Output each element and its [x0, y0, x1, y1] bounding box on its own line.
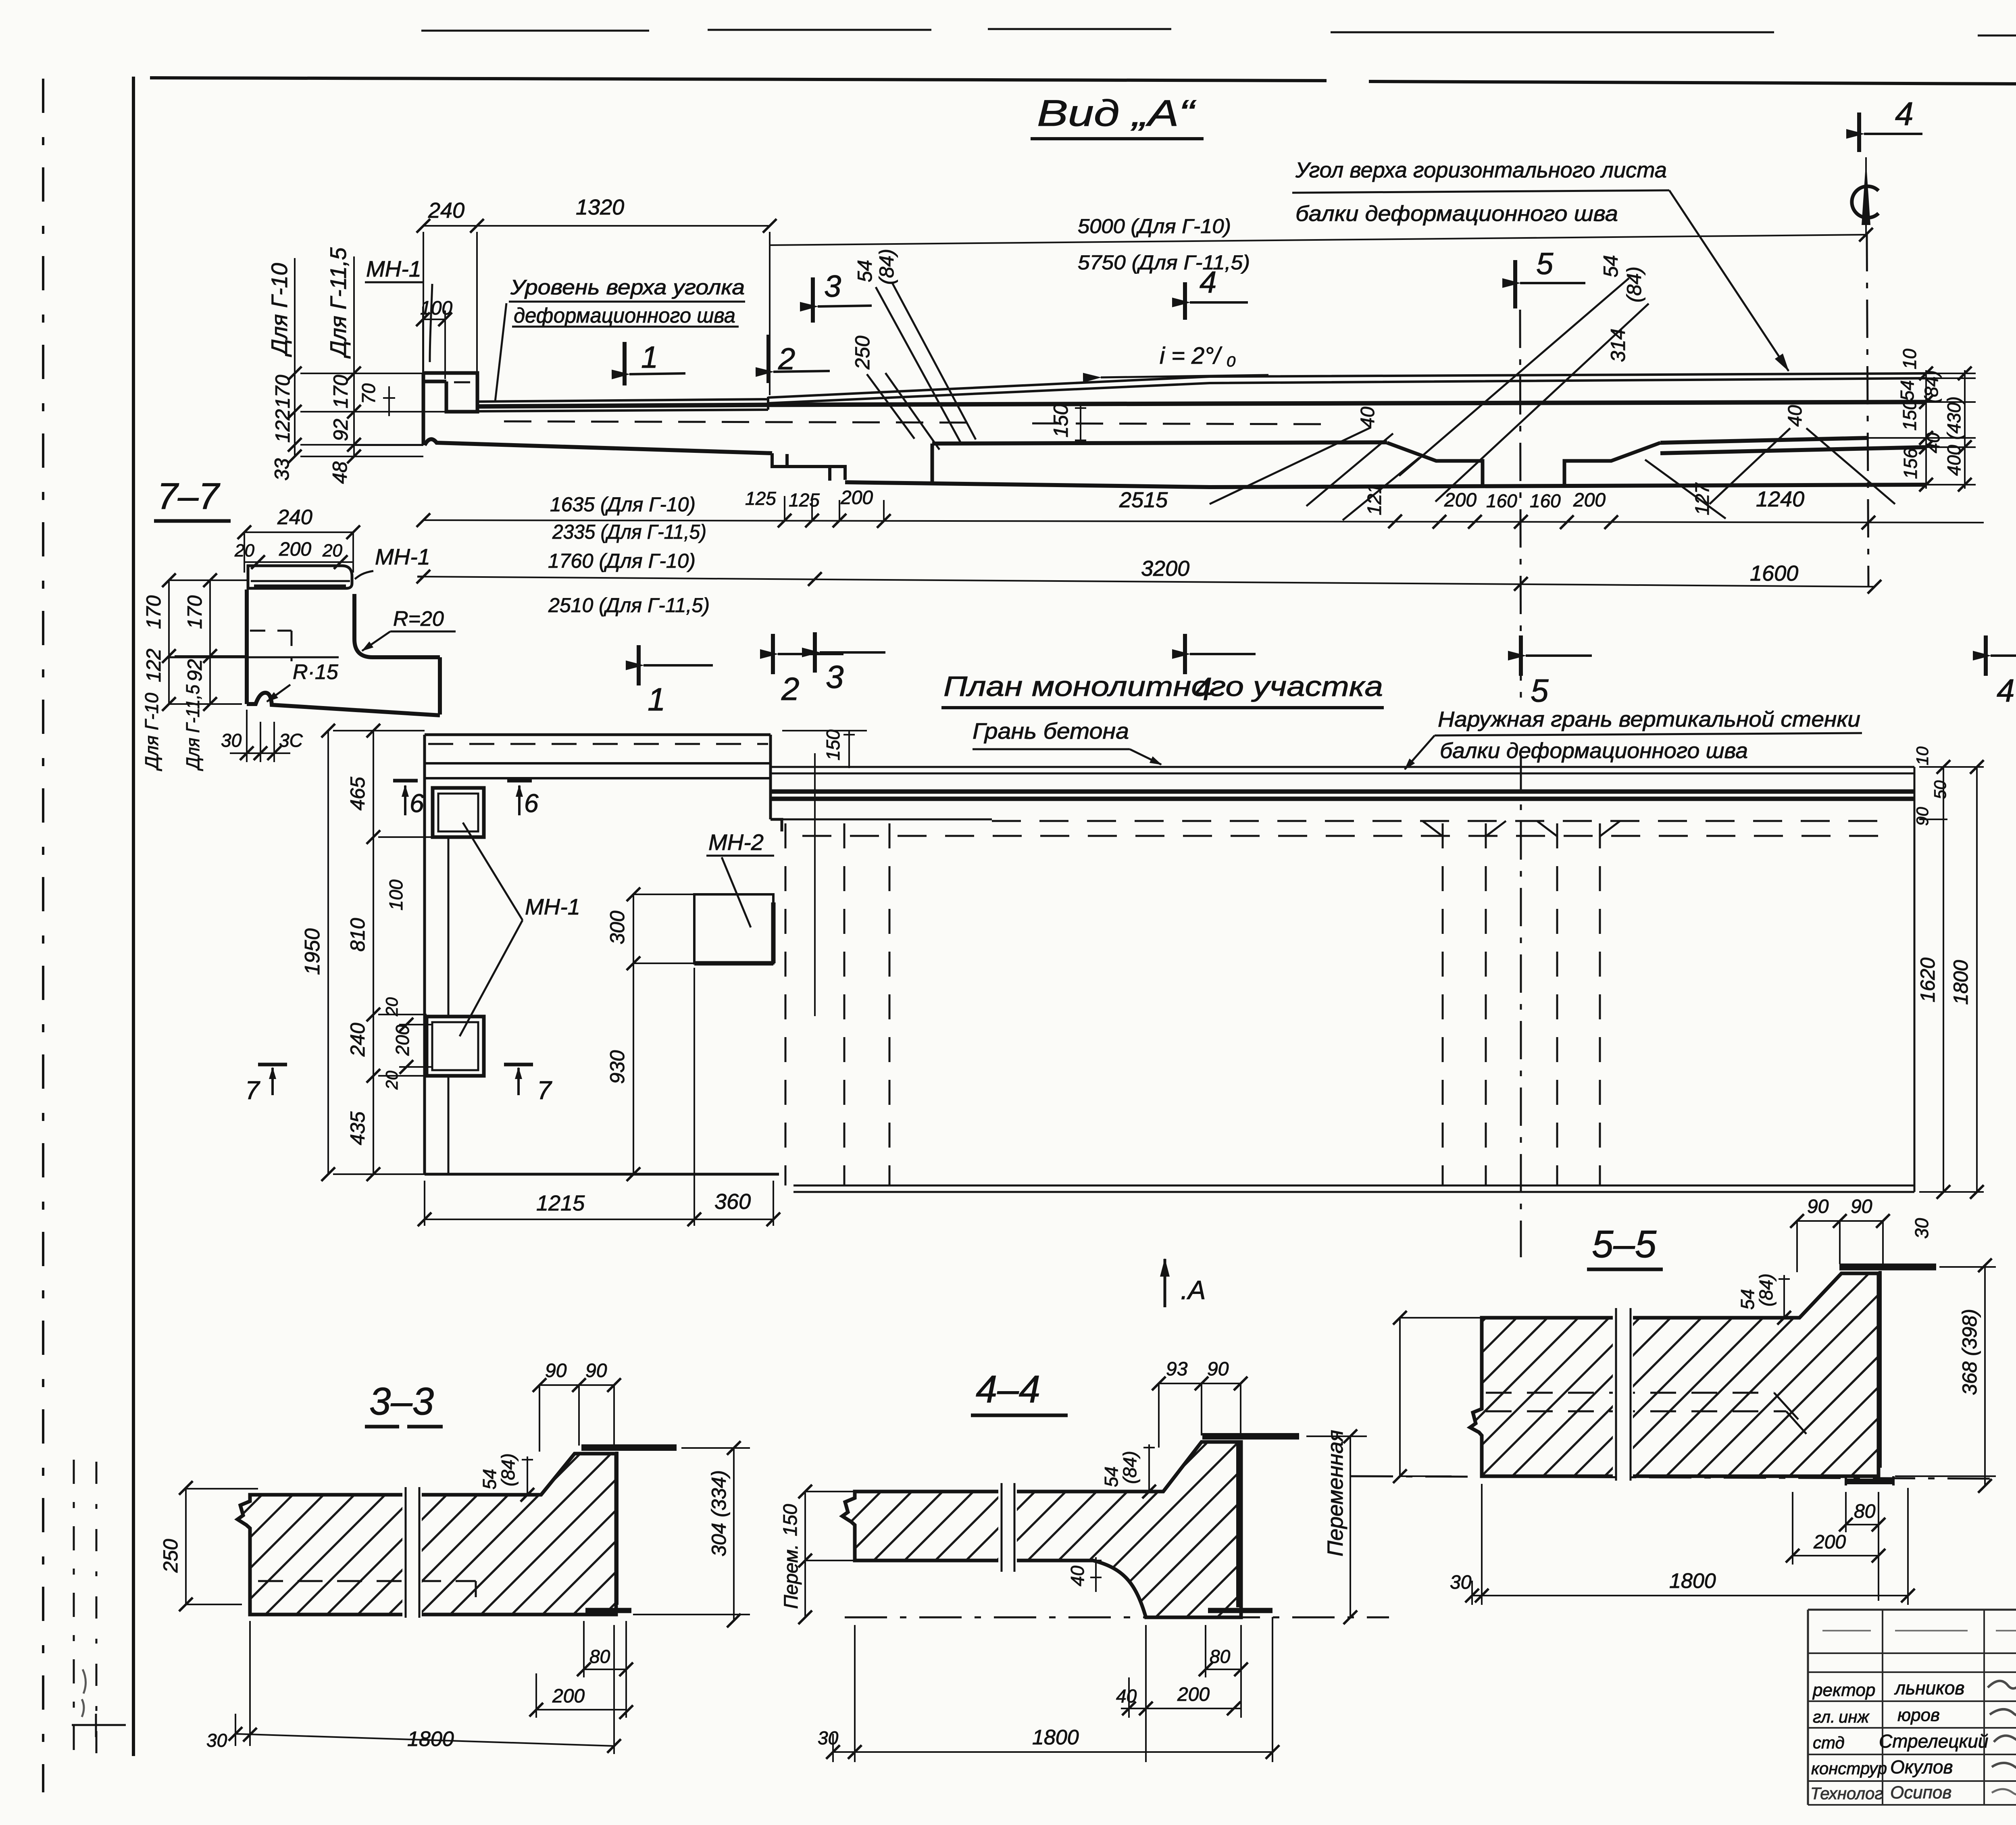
svg-text:Перем.: Перем. [781, 1544, 802, 1609]
section 3 line in plan [814, 753, 816, 1016]
deck top heavy line [477, 402, 1925, 406]
beam B lower step line [1660, 447, 1925, 453]
left margin dashed rule [42, 79, 44, 1792]
MN-2 dims [633, 894, 694, 1174]
svg-text:50: 50 [1931, 780, 1949, 799]
svg-text:4–4: 4–4 [976, 1368, 1040, 1411]
deck top line B [768, 378, 1925, 403]
section 5-5 [1351, 1196, 1996, 1605]
svg-text:170: 170 [142, 595, 165, 629]
MN-1 square upper [433, 788, 484, 837]
svg-text:90: 90 [1851, 1196, 1872, 1217]
baseline dash-dot 4-4 [845, 1617, 1389, 1619]
section 5 axis dash-dot [1520, 310, 1521, 708]
svg-text:54: 54 [854, 260, 876, 282]
dashed lines inside 5-5 [1486, 1392, 1774, 1394]
svg-text:льников: льников [1894, 1677, 1964, 1698]
svg-text:Угол верха горизонтального: Угол верха горизонтального листа [1295, 158, 1667, 182]
svg-text:5–5: 5–5 [1592, 1223, 1657, 1266]
svg-text:Для Г-11,5: Для Г-11,5 [182, 685, 203, 771]
inner vertical between squares [448, 837, 450, 1174]
lowest soffit line [845, 482, 1925, 487]
joint dashed verticals pair 1 [1443, 823, 1486, 1185]
svg-text:100: 100 [385, 879, 406, 910]
view direction arrow A [1164, 1259, 1166, 1307]
dim 20 200 20 [244, 561, 353, 563]
view A elevation [267, 93, 2016, 717]
MN-2 square [694, 894, 773, 963]
deck top line A [768, 373, 1925, 398]
svg-text:90: 90 [1207, 1358, 1229, 1380]
bottom dims 3-3 [235, 1621, 626, 1754]
beam A soffit [425, 439, 772, 453]
svg-text:465: 465 [346, 777, 369, 810]
svg-text:10: 10 [1913, 746, 1932, 765]
svg-text:40: 40 [1922, 432, 1943, 453]
svg-text:ректор: ректор [1812, 1680, 1875, 1700]
svg-text:150: 150 [823, 729, 843, 760]
section mark 3 bottom [813, 632, 817, 673]
svg-text:7: 7 [245, 1076, 260, 1105]
dim row 240/1320 [423, 226, 770, 395]
deck bottom double lines [793, 1185, 1914, 1192]
svg-text:.А: .А [1181, 1275, 1206, 1305]
break band 5-5 [1613, 1306, 1633, 1482]
svg-text:240: 240 [428, 198, 464, 223]
svg-text:(84): (84) [875, 249, 898, 285]
svg-text:3: 3 [826, 659, 844, 695]
svg-text:1800: 1800 [1669, 1569, 1716, 1593]
hatched body 4-4 [842, 1442, 1241, 1617]
svg-text:1800: 1800 [1032, 1726, 1079, 1749]
svg-text:93: 93 [1166, 1358, 1188, 1380]
top main border rule [150, 78, 2016, 86]
left dim 250 [186, 1488, 258, 1604]
svg-text:3200: 3200 [1141, 556, 1189, 581]
svg-text:2510 (Для Г-11,5): 2510 (Для Г-11,5) [548, 594, 710, 617]
I-beam top flange 3-3 [581, 1444, 677, 1451]
left dim stack verticals [295, 256, 446, 456]
joint 2 taper left [1387, 443, 1483, 488]
I-beam top flange 5-5 [1839, 1264, 1936, 1271]
svg-text:Уровень верха уголка: Уровень верха уголка [510, 276, 745, 299]
svg-text:2: 2 [781, 671, 800, 707]
svg-text:4: 4 [1997, 673, 2015, 708]
svg-text:3: 3 [824, 269, 841, 304]
section mark 1 top [623, 342, 627, 385]
dashed line under deck [504, 421, 968, 423]
dim 54-84 5-5 [1779, 1275, 1790, 1318]
svg-text:30: 30 [1911, 1218, 1932, 1239]
table outline [1808, 1610, 2016, 1805]
I-beam web 4-4 [1236, 1440, 1239, 1607]
MN-1 square lower [427, 1017, 484, 1076]
svg-text:240: 240 [277, 506, 312, 529]
left dim columns [169, 580, 248, 704]
top dims 90 90 3-3 [539, 1385, 614, 1452]
svg-text:балки деформационного шва: балки деформационного шва [1295, 202, 1618, 226]
svg-text:80: 80 [589, 1646, 610, 1667]
title block [1808, 1610, 2016, 1805]
dim chain row D [423, 577, 1874, 587]
bottom dims 5-5 [1472, 1484, 1908, 1605]
svg-text:План монолитного участка: План монолитного участка [943, 671, 1383, 702]
svg-text:Осипов: Осипов [1890, 1783, 1951, 1802]
svg-text:54: 54 [1599, 255, 1622, 277]
svg-text:360: 360 [714, 1190, 751, 1214]
profile left edge [245, 590, 249, 704]
svg-text:5000 (Для Г-10): 5000 (Для Г-10) [1078, 215, 1231, 237]
section mark 5 bottom [1519, 635, 1523, 676]
svg-text:юров: юров [1897, 1705, 1940, 1725]
svg-text:Окулов: Окулов [1890, 1756, 1953, 1777]
svg-text:435: 435 [346, 1111, 369, 1145]
svg-text:Стрелецкий: Стрелецкий [1879, 1731, 1988, 1752]
svg-text:6: 6 [524, 789, 539, 818]
svg-text:1800: 1800 [407, 1727, 454, 1751]
plan of monolithic section [245, 671, 1984, 1307]
axis symbol [1852, 186, 1879, 218]
section mark 1 bottom [637, 645, 641, 685]
svg-text:5750 (Для Г-11,5): 5750 (Для Г-11,5) [1078, 251, 1250, 274]
svg-text:2335 (Для Г-11,5): 2335 (Для Г-11,5) [552, 521, 706, 543]
left dim col 1950 [328, 731, 433, 1174]
svg-text:90: 90 [585, 1360, 607, 1381]
svg-text:90: 90 [545, 1360, 567, 1381]
svg-text:1760 (Для Г-10): 1760 (Для Г-10) [548, 550, 696, 572]
dim row 5000/5750 [770, 235, 1866, 245]
svg-text:2515: 2515 [1119, 488, 1168, 512]
dim 54-84 4-4 [1143, 1444, 1155, 1492]
deck right edge [1914, 767, 1916, 1192]
break band 4-4 [998, 1481, 1017, 1574]
svg-text:54: 54 [479, 1469, 500, 1490]
section mark 6 b [507, 779, 532, 783]
svg-text:МН-1: МН-1 [366, 256, 421, 281]
I-beam bottom flange 4-4 [1208, 1608, 1272, 1613]
deck band left med lines [477, 397, 768, 411]
svg-text:40: 40 [1116, 1685, 1137, 1706]
svg-text:1320: 1320 [576, 195, 624, 219]
leader diagonals joint1 [867, 282, 976, 450]
svg-text:1620: 1620 [1916, 958, 1939, 1002]
svg-text:150: 150 [1899, 400, 1920, 431]
svg-text:i = 2°/ ₀: i = 2°/ ₀ [1160, 343, 1236, 369]
svg-text:250: 250 [159, 1539, 182, 1573]
svg-text:48: 48 [329, 461, 351, 484]
deck heavy double lines [771, 792, 1914, 799]
svg-text:20: 20 [382, 1071, 401, 1090]
break band 3-3 [402, 1485, 422, 1620]
svg-text:6: 6 [410, 789, 424, 818]
plan bottom dims [425, 968, 773, 1226]
svg-text:368 (398): 368 (398) [1958, 1309, 1981, 1395]
svg-text:Для Г-10: Для Г-10 [267, 263, 292, 357]
svg-text:200: 200 [552, 1685, 585, 1707]
svg-text:40: 40 [1067, 1565, 1088, 1586]
svg-text:4: 4 [1200, 265, 1216, 300]
svg-text:156: 156 [1900, 448, 1921, 479]
dashed line inside 3-3 [258, 1580, 476, 1582]
I-beam bottom flange 5-5 [1847, 1479, 1893, 1484]
left inner frame rule [132, 77, 135, 1756]
svg-text:30: 30 [221, 730, 242, 751]
svg-text:конструр: конструр [1811, 1759, 1887, 1778]
svg-text:170: 170 [329, 375, 352, 408]
left block step [771, 735, 782, 831]
joint dashed verticals pair 2 [1557, 823, 1600, 1185]
section mark 4 far top [1857, 112, 1861, 152]
svg-text:1215: 1215 [536, 1191, 585, 1215]
hatched body 5-5 [1470, 1273, 1879, 1476]
section 3-3 [159, 1360, 750, 1754]
svg-text:30: 30 [206, 1730, 227, 1751]
section 5 axis in plan [1520, 755, 1522, 1257]
beam B mid line right [1660, 438, 1868, 443]
svg-text:4: 4 [1895, 96, 1914, 132]
svg-text:92: 92 [183, 659, 206, 681]
svg-text:Грань бетона: Грань бетона [973, 718, 1129, 744]
dashed step [250, 631, 292, 661]
svg-text:Наружная грань вертикальной: Наружная грань вертикальной стенки [1438, 707, 1860, 731]
top thin broken rule [421, 29, 2016, 39]
svg-text:Технолог: Технолог [1810, 1784, 1883, 1803]
svg-text:125: 125 [789, 490, 820, 510]
svg-text:160: 160 [1486, 490, 1517, 511]
beam B mid line [932, 442, 1387, 444]
bottom dims 30 30 [230, 710, 290, 762]
svg-text:400 (430): 400 (430) [1943, 396, 1964, 476]
svg-text:10: 10 [1899, 348, 1920, 369]
svg-text:200: 200 [279, 539, 311, 560]
svg-text:200: 200 [392, 1025, 413, 1056]
svg-text:20: 20 [322, 541, 342, 560]
svg-text:20: 20 [382, 997, 401, 1017]
svg-text:80: 80 [1854, 1501, 1876, 1522]
top dims 90 90 5-5 [1797, 1221, 1883, 1272]
svg-text:1800: 1800 [1949, 960, 1972, 1005]
MN-1 plate [248, 566, 352, 588]
section mark 7 left [258, 1063, 287, 1067]
section 4 axis dash-dot [1867, 233, 1868, 587]
svg-text:170: 170 [183, 595, 206, 629]
label MN-1 row D [417, 576, 424, 578]
section mark 4 bottom right [1984, 635, 1988, 676]
svg-text:30: 30 [1450, 1572, 1472, 1593]
svg-text:122: 122 [271, 409, 294, 443]
bottom-left margin dashed verticals [73, 1460, 75, 1752]
section mark 7 right [504, 1063, 533, 1067]
svg-text:МН-1: МН-1 [525, 894, 580, 919]
svg-text:R=20: R=20 [393, 607, 444, 631]
svg-text:54: 54 [1897, 380, 1918, 401]
svg-text:170: 170 [271, 375, 294, 408]
svg-text:90: 90 [1807, 1196, 1829, 1217]
svg-text:1635 (Для Г-10): 1635 (Для Г-10) [550, 493, 696, 516]
svg-text:3–3: 3–3 [369, 1380, 434, 1423]
bottom-left margin mark [72, 1714, 126, 1737]
I-beam web 3-3 [615, 1452, 619, 1605]
svg-text:92: 92 [329, 419, 352, 441]
leader diagonals joint2 [1210, 278, 1895, 520]
svg-text:Вид „А“: Вид „А“ [1037, 93, 1196, 134]
svg-text:70: 70 [358, 383, 379, 404]
joint notch box B [830, 467, 845, 480]
right dim 304 [633, 1448, 750, 1621]
svg-text:Для Г-11,5: Для Г-11,5 [325, 247, 351, 359]
left block inner lines [428, 743, 768, 745]
joint 2 taper right [1564, 443, 1660, 488]
soffit with R15 [247, 693, 440, 715]
svg-text:200: 200 [1573, 490, 1606, 511]
svg-text:5: 5 [1531, 673, 1549, 708]
svg-text:3С: 3С [279, 730, 303, 751]
svg-text:20: 20 [234, 541, 254, 560]
dim chain row C [423, 520, 1984, 523]
section mark 2 top [766, 335, 771, 383]
joint 1 dashed verticals in plan [785, 823, 889, 1185]
svg-text:стд: стд [1813, 1733, 1845, 1752]
svg-text:2: 2 [778, 342, 795, 376]
svg-text:(84): (84) [1119, 1451, 1140, 1484]
right dim Peremennaya [1306, 1436, 1367, 1617]
left dim 5-5 [1400, 1318, 1482, 1476]
svg-text:125: 125 [745, 488, 776, 509]
baseline dash-dot 5-5 [1351, 1476, 1996, 1479]
svg-text:Переменная: Переменная [1323, 1430, 1347, 1556]
section mark 4 top mid [1183, 282, 1187, 320]
svg-text:200: 200 [1444, 490, 1477, 511]
section 6-6 [2015, 1034, 2016, 1265]
svg-text:121: 121 [1364, 483, 1385, 515]
svg-text:гл. инж: гл. инж [1813, 1707, 1870, 1726]
section mark 6 a [393, 779, 418, 783]
svg-text:7: 7 [537, 1076, 552, 1105]
svg-text:5: 5 [1536, 247, 1554, 281]
svg-text:40: 40 [1357, 406, 1379, 428]
joint tapers [1422, 821, 1620, 836]
deck top double thin lines [771, 767, 1914, 773]
svg-text:200: 200 [840, 487, 873, 508]
right dim stack of plan [1919, 767, 1984, 1192]
svg-text:240: 240 [346, 1023, 369, 1057]
svg-text:1600: 1600 [1750, 561, 1798, 585]
section mark 4 bottom [1183, 634, 1187, 674]
beam B left edge [931, 444, 934, 481]
joint notch box A [772, 453, 830, 481]
svg-text:(84): (84) [1921, 370, 1942, 403]
left dims 150 Perem 4-4 [805, 1492, 855, 1617]
svg-text:150: 150 [1050, 404, 1072, 437]
svg-text:МН-1: МН-1 [375, 544, 430, 569]
svg-text:балки деформационного шва: балки деформационного шва [1440, 739, 1748, 763]
svg-text:Для Г-10: Для Г-10 [141, 693, 162, 771]
right dim 368 [1895, 1265, 1996, 1486]
svg-text:150: 150 [780, 1504, 801, 1536]
I-beam bottom flange 3-3 [585, 1608, 631, 1613]
svg-text:810: 810 [346, 918, 369, 952]
svg-text:200: 200 [1813, 1531, 1846, 1553]
svg-text:33: 33 [271, 458, 293, 481]
svg-text:127: 127 [1692, 482, 1713, 515]
deck inner solid then dashed [772, 819, 992, 821]
svg-text:930: 930 [606, 1050, 629, 1084]
I-beam top flange 4-4 [1202, 1433, 1299, 1440]
left block outline [425, 735, 779, 1174]
svg-text:(84): (84) [1623, 267, 1645, 302]
svg-text:1950: 1950 [301, 928, 324, 975]
svg-text:МН-2: МН-2 [708, 829, 764, 855]
svg-text:40: 40 [1785, 405, 1806, 427]
bottom dims 4-4 [833, 1617, 1272, 1762]
section 4-4 [780, 1358, 1389, 1762]
svg-text:304 (334): 304 (334) [708, 1470, 730, 1556]
upstand block [423, 373, 477, 445]
svg-text:250: 250 [851, 335, 874, 370]
dim 54-84 3-3 [522, 1456, 533, 1495]
svg-text:(84): (84) [498, 1453, 519, 1486]
I-beam web 5-5 [1879, 1271, 1882, 1468]
svg-text:122: 122 [142, 648, 165, 682]
leader to deck edge [1669, 190, 1789, 371]
svg-text:54: 54 [1737, 1289, 1758, 1310]
svg-text:30: 30 [818, 1727, 839, 1748]
svg-text:R·15: R·15 [293, 660, 339, 684]
hatched body 3-3 [237, 1454, 616, 1615]
top dims 90 90 4-4 [1159, 1383, 1241, 1448]
section mark 3 top [811, 277, 815, 323]
section mark 5 top [1513, 260, 1517, 308]
svg-text:1240: 1240 [1756, 487, 1804, 511]
svg-text:314: 314 [1607, 329, 1629, 362]
svg-text:160: 160 [1530, 490, 1561, 511]
section 7-7 [141, 476, 456, 771]
svg-text:200: 200 [1177, 1684, 1210, 1705]
svg-text:(84): (84) [1756, 1273, 1776, 1306]
svg-text:80: 80 [1210, 1646, 1231, 1667]
svg-text:1: 1 [648, 681, 666, 717]
section mark 2 bottom [771, 634, 775, 674]
profile top line and R20 corner [169, 656, 339, 658]
right end dim stack [1868, 370, 1976, 489]
svg-text:90: 90 [1913, 807, 1932, 826]
svg-text:деформационного шва: деформационного шва [514, 304, 735, 327]
svg-text:1: 1 [641, 340, 658, 375]
dim 240 [244, 532, 353, 573]
svg-text:7–7: 7–7 [157, 476, 220, 517]
svg-text:300: 300 [606, 910, 629, 944]
svg-text:54: 54 [1101, 1467, 1122, 1487]
